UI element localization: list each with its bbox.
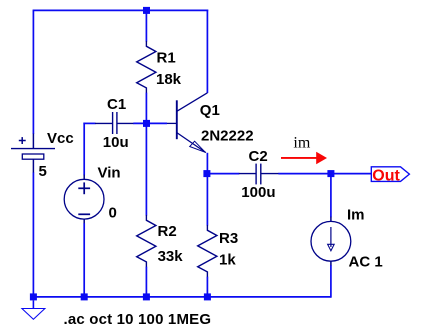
wire Vin top riser [83, 123, 85, 176]
wire collector drop [206, 10, 208, 93]
svg-text:C2: C2 [249, 148, 268, 165]
svg-text:1k: 1k [219, 252, 236, 269]
ground [22, 300, 45, 319]
resistor R1 [137, 41, 156, 93]
wire C1 right / base lead [133, 122, 167, 124]
wire emitter stub [206, 153, 208, 174]
svg-text:R3: R3 [219, 230, 238, 247]
node junction R3-bottom [204, 293, 211, 300]
svg-text:Im: Im [347, 207, 365, 224]
svg-text:33k: 33k [158, 248, 184, 265]
svg-text:0: 0 [109, 205, 117, 222]
wire ground rail [33, 296, 331, 298]
transistor Q1 [167, 93, 207, 153]
wire Im top riser [330, 173, 332, 217]
battery Vcc [11, 134, 55, 173]
wire C2 right to port [278, 173, 371, 175]
node junction ground-left [30, 293, 37, 300]
svg-text:18k: 18k [156, 71, 182, 88]
current arrow im [281, 152, 327, 165]
capacitor C1 [95, 112, 134, 134]
wire top Vcc rail [33, 9, 209, 11]
node junction R2-bottom [143, 293, 150, 300]
node junction base [143, 120, 150, 127]
svg-text:5: 5 [39, 163, 47, 180]
node junction Vcc/R1 [143, 7, 150, 14]
svg-text:im: im [293, 134, 310, 151]
svg-text:Vcc: Vcc [47, 130, 74, 147]
resistor R3 [198, 225, 217, 277]
svg-text:AC 1: AC 1 [349, 254, 383, 271]
capacitor C2 [239, 164, 279, 185]
svg-text:.ac oct 10 100 1MEG: .ac oct 10 100 1MEG [64, 311, 212, 328]
wire R3 bottom stub [206, 277, 208, 298]
wire R2 bottom stub [145, 267, 147, 298]
wire R1 bottom stub [145, 93, 147, 124]
wire R3 top stub [206, 174, 208, 226]
port Out outline [371, 167, 409, 182]
svg-text:R1: R1 [157, 50, 176, 67]
svg-text:100u: 100u [241, 184, 275, 201]
wire R2 top stub [145, 124, 147, 216]
svg-text:C1: C1 [107, 96, 126, 113]
wire C2 left [207, 173, 239, 175]
svg-text:R2: R2 [158, 223, 177, 240]
svg-text:Q1: Q1 [200, 102, 220, 119]
resistor R2 [137, 215, 156, 267]
current source Im [311, 217, 351, 266]
wire battery bottom [32, 173, 34, 298]
wire C1 left [83, 122, 95, 124]
wire R1 top stub [145, 10, 147, 41]
voltage source Vin [64, 175, 104, 224]
svg-text:10u: 10u [103, 134, 129, 151]
wire Vin bottom riser [83, 223, 85, 297]
wire Im bottom riser [330, 265, 332, 297]
node junction Vin-bottom [81, 293, 88, 300]
wire left Vcc rail [32, 10, 34, 134]
svg-text:Vin: Vin [98, 165, 121, 182]
svg-text:Out: Out [372, 167, 400, 184]
node junction out [327, 170, 334, 177]
svg-text:2N2222: 2N2222 [201, 128, 254, 145]
node junction emitter [203, 170, 210, 177]
